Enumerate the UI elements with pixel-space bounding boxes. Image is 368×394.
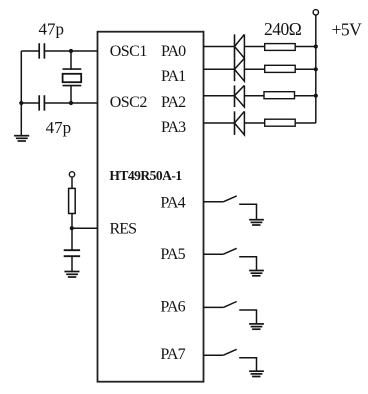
switch S3 contact [239,309,257,311]
wire terminal to reset resistor [71,177,73,188]
wire OSC1 left to capacitor C1 [21,50,39,52]
switch S4 blade [223,349,236,355]
wire switch S2 to ground [256,257,258,271]
wire PA2 pin to LED D3 [204,95,235,97]
switch S4 contact [239,357,257,359]
wire switch S1 to ground [256,204,258,219]
LED D2 [235,58,245,81]
svg-text:PA0: PA0 [161,43,186,60]
switch S1 contact [239,203,257,205]
wire +5V bus vertical [315,15,317,123]
resistor (reset pull-up) [69,188,76,213]
junction node bus/R3 [314,94,318,98]
wire PA6 pin to switch S3 [204,306,224,308]
wire resistor R3 to +5V bus [295,95,316,97]
wire PA7 pin to switch S4 [204,354,224,356]
svg-text:OSC2: OSC2 [110,94,148,111]
svg-text:PA6: PA6 [160,299,185,316]
svg-text:PA5: PA5 [160,246,185,263]
crystal X1 [63,69,82,86]
chip U1 HT49R50A-1 body [98,32,204,382]
svg-text:PA7: PA7 [160,346,185,363]
svg-text:PA2: PA2 [161,94,186,111]
svg-text:PA1: PA1 [161,68,186,85]
wire crystal top stem [70,51,72,70]
svg-text:+5V: +5V [332,19,363,39]
wire PA4 pin to switch S1 [204,201,224,203]
switch S2 contact [239,256,257,258]
ground (S3) [249,324,264,329]
svg-text:PA3: PA3 [161,119,186,136]
wire LED D2 to resistor R2 [244,68,264,70]
wire junction to RES pin [72,227,98,229]
ground (S1) [249,220,264,225]
wire switch S4 to ground [256,358,258,371]
terminal +5V [313,10,318,15]
capacitor C2 47p plates [39,95,44,110]
svg-text:RES: RES [110,221,137,238]
svg-text:240Ω: 240Ω [264,19,302,39]
ground (S2) [249,271,264,276]
capacitor (reset) plates [64,250,80,256]
svg-text:PA4: PA4 [160,195,185,212]
wire LED D3 to resistor R3 [244,95,264,97]
wire capacitor C1 to OSC1 pin [44,50,97,52]
wire resistor R1 to +5V bus [295,46,316,48]
switch S3 blade [223,302,236,308]
ground (S4) [249,371,264,376]
wire LED D1 to resistor R1 [244,46,264,48]
capacitor C1 47p plates [39,43,44,58]
resistor R3 240ohm [264,92,295,99]
wire crystal bottom stem [70,85,72,103]
wire resistor R4 to +5V bus [295,122,316,124]
wire reset capacitor to ground [71,256,73,271]
wire resistor R2 to +5V bus [295,68,316,70]
wire capacitor C2 to OSC2 pin [44,102,97,104]
resistor R2 240ohm [265,65,296,72]
wire PA3 pin to LED D4 [204,122,235,124]
junction node bus/R1 [314,44,318,48]
wire PA1 pin to LED D2 [204,68,235,70]
svg-text:OSC1: OSC1 [110,43,148,60]
junction node OSC2/crystal [69,101,73,105]
wire PA5 pin to switch S2 [204,253,224,255]
junction node bus/R2 [314,67,318,71]
resistor R1 240ohm [265,44,296,51]
LED D3 [235,85,245,107]
junction node RES [70,226,74,230]
LED D1 [235,34,245,58]
LED D4 [235,111,245,135]
svg-text:HT49R50A-1: HT49R50A-1 [109,168,182,183]
wire left rail (caps common) [20,51,22,136]
wire LED D4 to resistor R4 [244,122,264,124]
terminal (reset pull-up top) [69,172,74,177]
wire PA0 pin to LED D1 [204,46,235,48]
svg-text:47p: 47p [46,118,72,137]
junction node OSC1/crystal [69,49,73,53]
switch S2 blade [223,248,236,254]
wire reset resistor to junction and capacitor [71,214,73,251]
svg-text:47p: 47p [39,19,65,38]
ground (oscillator rail) [14,136,29,141]
switch S1 blade [223,196,236,202]
ground (reset capacitor) [64,272,79,278]
wire switch S3 to ground [256,310,258,324]
resistor R4 240ohm [265,119,296,126]
junction node left rail / OSC2 [19,101,23,105]
wire OSC2 left to capacitor C2 [21,102,39,104]
